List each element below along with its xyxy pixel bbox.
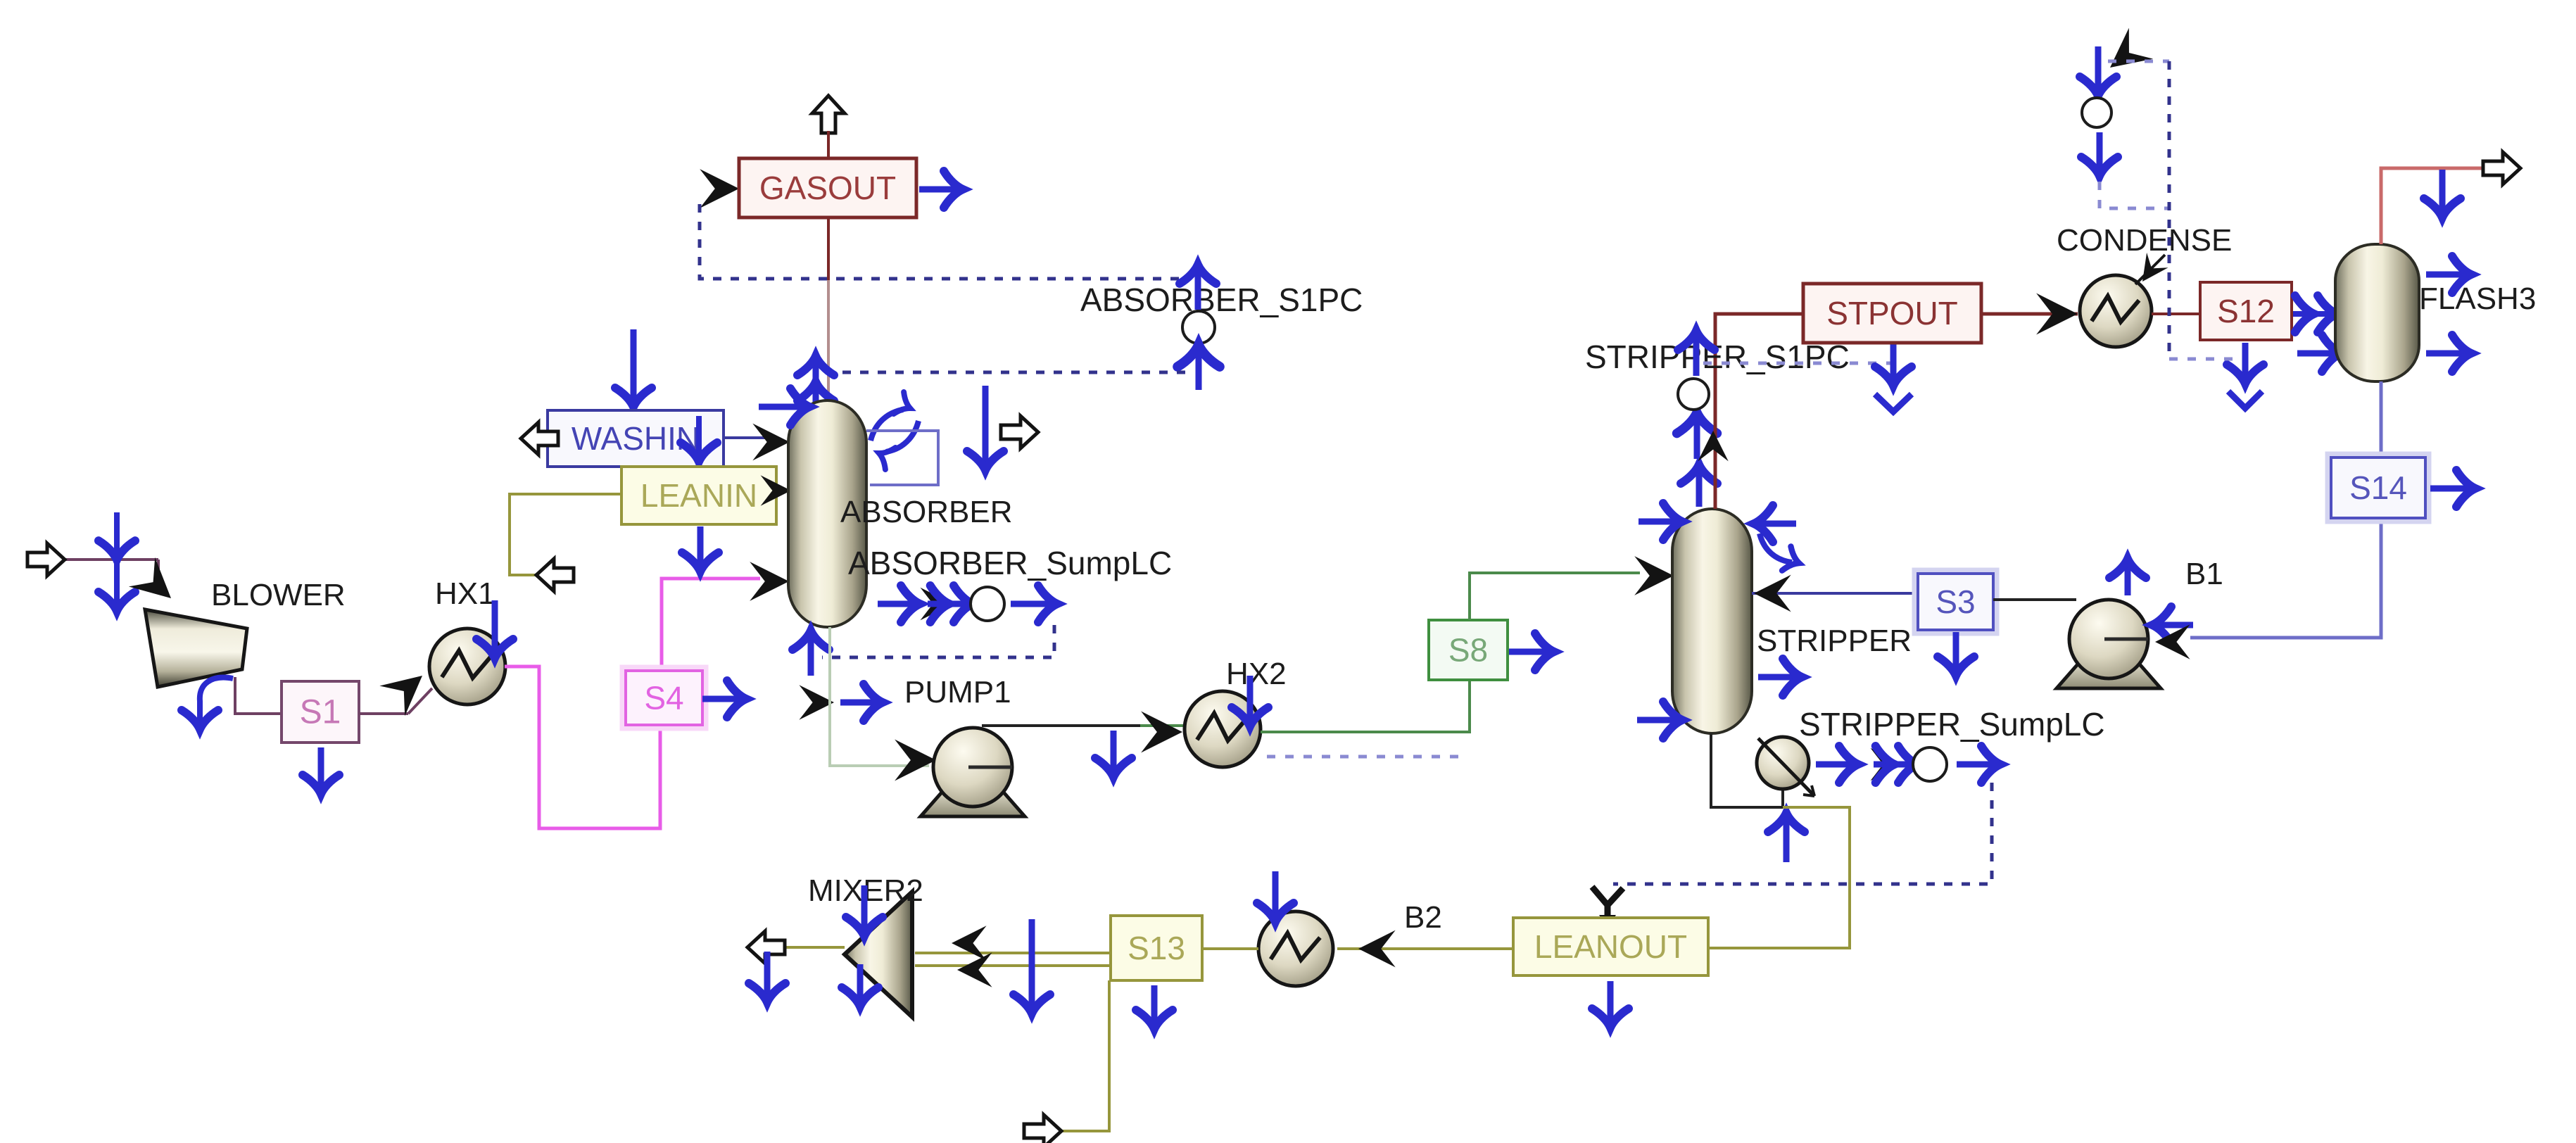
port arrow feed junction [114, 512, 120, 607]
heat-exchanger HX2 [1185, 691, 1261, 767]
black arrow absorber LC [921, 588, 954, 621]
port arrow below S13 [1151, 985, 1158, 1025]
port arrow below LEANOUT [1608, 981, 1614, 1023]
heat-exchanger HX1 [429, 629, 505, 705]
port arrow onto B2 [1273, 871, 1279, 918]
port arrow absorber LC 2 [928, 601, 968, 607]
black stream arrows into MIXER2 [952, 926, 987, 961]
column STRIPPER [1672, 509, 1752, 733]
wire absorber to GASOUT [827, 217, 830, 280]
dashed signal stripper S1PC [1703, 362, 1893, 365]
port arrow right of GASOUT [919, 187, 959, 193]
black stream arrow into HX2 [1141, 712, 1182, 753]
svg-text:S12: S12 [2217, 293, 2275, 329]
svg-text:HX1: HX1 [435, 576, 495, 611]
wire BLOWER to S1 [235, 677, 282, 714]
port arrow into B1 [2157, 622, 2193, 629]
stream box LEANOUT [1513, 918, 1708, 975]
wire B2 to S13 [1111, 947, 1258, 950]
dashed signal condenser top [2108, 60, 2169, 63]
black stream arrow green into stripper [1634, 556, 1674, 595]
wire LEANIN olive loop [510, 494, 621, 575]
svg-text:STRIPPER: STRIPPER [1757, 624, 1912, 658]
wire MIXER2 outlet [747, 946, 845, 949]
wire S14 to B1 [2190, 518, 2381, 638]
stream box S8 [1429, 620, 1508, 680]
hollow arrow FLASH3 vent [2483, 152, 2520, 184]
wire absorber to PUMP1 [830, 627, 929, 766]
stream box LEANIN [621, 467, 776, 524]
port arrow absorber LC 1 [878, 601, 916, 607]
port arrow absorber bottom up [808, 635, 814, 676]
port arrow into stripper bottom-left [1637, 717, 1678, 724]
port arrow above controller A1PC [1195, 269, 1201, 310]
port arrow into FLASH3 lower-left [2297, 351, 2337, 357]
port arrow reboiler out 1 [1816, 762, 1854, 768]
black stream arrow into GASOUT [700, 169, 739, 208]
svg-text:ABSORBER_SumpLC: ABSORBER_SumpLC [848, 545, 1172, 581]
controller condenser [2082, 98, 2111, 127]
port arrow absorber LC 3 [1011, 601, 1053, 607]
wire S12 to FLASH3 [2292, 312, 2335, 315]
port arrow through WASHIN [696, 416, 702, 507]
hollow arrow makeup inlet [1024, 1115, 1061, 1143]
port arrow right of S4 [702, 696, 742, 702]
pump B1 [2057, 657, 2161, 688]
controller STRIPPER_SumpLC [1913, 747, 1947, 781]
svg-text:LEANIN: LEANIN [640, 477, 757, 514]
black stream arrow into PUMP1 [895, 740, 936, 781]
column ABSORBER [788, 400, 866, 627]
port arrow on pump outlet [1111, 731, 1117, 773]
port arrow below mixer [857, 964, 864, 1002]
port arrow reboiler out 3 [1957, 762, 1996, 768]
wire condense label line [2135, 255, 2165, 284]
wire HX1 to S4 pink [505, 667, 660, 828]
port hook arrow stripper right [1760, 533, 1792, 562]
port arrow above B1 [2125, 563, 2131, 595]
stream box S13 [1111, 916, 1202, 980]
svg-text:S3: S3 [1936, 583, 1975, 620]
black stream arrow into BLOWER [129, 557, 184, 613]
port arrow below S3 [1953, 632, 1959, 671]
port arrow onto HX2 [1247, 676, 1254, 722]
hollow vent arrow above GASOUT [812, 96, 845, 133]
port arrow above stripper S1PC [1693, 335, 1700, 376]
port loop arrow blower outlet [200, 678, 233, 722]
dashed signal condenser to S12 [2169, 358, 2242, 361]
port arrow below condenser controller [2097, 132, 2103, 172]
dashed signal condenser vertical [2168, 61, 2171, 359]
wire absorber wash pumparound [866, 431, 938, 485]
port arrow S12 to FLASH3 [2293, 311, 2332, 317]
port arrow right of S8 [1509, 649, 1550, 655]
controller ABSORBER_SumpLC [971, 587, 1004, 621]
pump PUMP1 [921, 785, 1025, 816]
svg-text:B1: B1 [2185, 557, 2223, 591]
stream box S12 [2200, 282, 2292, 340]
heat-exchanger CONDENSE [2080, 275, 2152, 347]
port arrow stripper right mid [1758, 674, 1798, 681]
black stream arrow pink into absorber [750, 562, 789, 601]
svg-text:S1: S1 [300, 694, 341, 731]
svg-text:HX2: HX2 [1226, 657, 1287, 691]
vessel FLASH3 [2335, 244, 2419, 381]
dashed faint under green line [1267, 755, 1463, 759]
hollow arrow left of WASHIN [521, 422, 558, 455]
wire WASHIN to absorber [724, 436, 771, 439]
black arrow condenser signal [2098, 28, 2153, 83]
port arrow stripper top 1 [1696, 469, 1703, 507]
stream box WASHIN [548, 410, 724, 467]
anchor Y onto LEANOUT [1592, 887, 1623, 928]
stream box S1 [282, 681, 359, 743]
wire S3 to B1 [1993, 598, 2076, 601]
port anchor below S12 [2242, 343, 2249, 379]
controller STRIPPER_S1PC [1678, 379, 1709, 410]
svg-text:ABSORBER_S1PC: ABSORBER_S1PC [1080, 282, 1363, 318]
black stream arrow into B2 [1358, 930, 1396, 968]
svg-text:S14: S14 [2349, 469, 2407, 506]
svg-text:ABSORBER: ABSORBER [840, 495, 1013, 529]
port arrow below reboiler [1783, 817, 1790, 862]
wire STPOUT to condenser [1981, 312, 2078, 316]
svg-text:STPOUT: STPOUT [1826, 295, 1958, 331]
svg-text:S4: S4 [644, 680, 683, 716]
svg-text:FLASH3: FLASH3 [2419, 282, 2536, 316]
svg-text:STRIPPER_SumpLC: STRIPPER_SumpLC [1799, 706, 2105, 743]
port arrow into stripper top-right [1758, 521, 1796, 527]
wire makeup to MIXER2 [1061, 980, 1109, 1131]
dashed signal controller to absorber top [816, 371, 1185, 374]
wire reboiler to LEANOUT [1710, 807, 1850, 948]
black stream arrow into B1 [2155, 624, 2190, 659]
reboiler STRIPPER [1757, 737, 1809, 789]
port arrow FLASH3 right top [2426, 272, 2467, 278]
port arrow into absorber top-left [759, 404, 805, 410]
port arrow mixer outlet line [764, 952, 771, 998]
black stream arrow WASHIN into column [752, 424, 790, 461]
black stream arrow S3 into stripper [1754, 575, 1791, 612]
wire LEANOUT to B2 [1337, 947, 1513, 950]
port arrow stripper top 2 [1694, 417, 1700, 459]
wire S4 to absorber pink [662, 579, 760, 671]
black arrow stripper LC [1871, 748, 1904, 781]
port arrow into mixer top [861, 885, 868, 932]
wire FLASH3 top vent [2381, 168, 2489, 244]
port arrow below controller A1PC [1196, 349, 1202, 390]
svg-text:S13: S13 [1128, 930, 1185, 966]
wire stripper bottom to reboiler [1711, 733, 1783, 807]
svg-text:BLOWER: BLOWER [211, 578, 346, 612]
port arrow below LEANIN [697, 526, 704, 567]
wire feed gas inlet [65, 558, 158, 561]
wire FLASH3 to S14 [2380, 381, 2383, 457]
hollow inlet arrow feed [27, 543, 65, 576]
port arrow absorber bottom-left pair [799, 685, 834, 720]
wire S13 to MIXER2 [915, 952, 1111, 954]
port anchor arrow vent [983, 386, 989, 466]
svg-text:GASOUT: GASOUT [759, 170, 896, 206]
black stream arrow into HX1 [379, 661, 435, 716]
port arrow into stripper top-left [1639, 519, 1678, 525]
port arrow right of S14 [2430, 486, 2471, 492]
port arrow below S1 [318, 747, 324, 790]
svg-text:B2: B2 [1404, 900, 1442, 935]
heat-exchanger B2 [1258, 911, 1333, 986]
wire condenser to S12 [2152, 312, 2200, 315]
wire GASOUT up vent [827, 131, 830, 159]
stream box GASOUT [739, 158, 916, 217]
svg-text:LEANOUT: LEANOUT [1534, 928, 1687, 965]
port arrow on mixer line [1029, 919, 1035, 1009]
stream box S3 [1914, 570, 1997, 633]
dashed signal GASOUT to controller [700, 204, 1187, 279]
wire stripper to STPOUT red [1715, 314, 1803, 509]
black arrow on STPOUT riser [1698, 431, 1728, 461]
svg-text:PUMP1: PUMP1 [904, 675, 1011, 709]
blower BLOWER [145, 610, 247, 687]
port arrow absorber top [813, 360, 819, 405]
hollow arrow vent [1001, 416, 1038, 448]
wire HX2 to S8 [1261, 680, 1470, 732]
stream box S4 [622, 667, 706, 728]
port hook arrows absorber top-right [871, 410, 903, 441]
stream box S14 [2328, 454, 2429, 522]
hollow arrow LEANIN loop end [536, 559, 574, 591]
black stream arrow into condenser [2036, 293, 2078, 335]
hollow arrow mixer outlet [747, 931, 785, 964]
svg-text:CONDENSE: CONDENSE [2057, 223, 2232, 258]
port anchor below STPOUT [1890, 341, 1897, 381]
port arrow FLASH3 right bottom [2426, 351, 2467, 357]
port arrow condenser signal top [2095, 46, 2102, 91]
port arrow onto HX1 [492, 600, 498, 654]
dashed signal stripper sump loop [1613, 783, 1992, 884]
dashed signal absorber sump loop [822, 625, 1054, 657]
wire S8 to stripper [1470, 573, 1640, 620]
black stream arrow LEANIN into column [761, 475, 791, 505]
wire PUMP1 to HX2 [982, 724, 1140, 727]
controller ABSORBER_S1PC [1182, 311, 1215, 343]
wire stripper to S3 [1752, 592, 1918, 595]
mixer MIXER2 [845, 892, 912, 1017]
port arrow reboiler out 2 [1874, 762, 1913, 768]
wire S1 to HX1 [359, 712, 408, 715]
port arrow on vent line [2439, 170, 2446, 213]
stream box STPOUT [1803, 284, 1981, 343]
svg-text:S8: S8 [1448, 632, 1488, 669]
port arrow above WASHIN [631, 329, 637, 403]
